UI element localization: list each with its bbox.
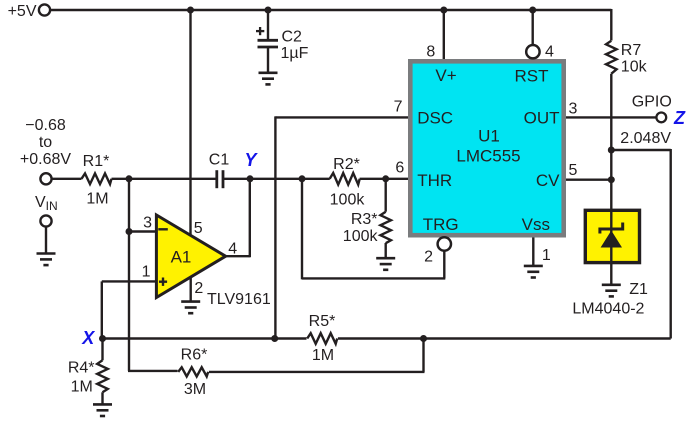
terminal TRG pin2 <box>438 237 451 250</box>
node DSC/X junction <box>271 335 278 342</box>
pin label 7 U1 <box>394 99 403 116</box>
terminal VIN ground stub <box>40 215 51 226</box>
pin label 1 U1 <box>542 247 551 264</box>
node junction rail to U1 pin8 <box>440 7 447 14</box>
svg-text:R7: R7 <box>621 42 642 59</box>
svg-text:RST: RST <box>515 67 549 86</box>
node R1/C1 junction <box>126 175 133 182</box>
svg-text:LM4040-2: LM4040-2 <box>572 300 644 317</box>
resistor R3 <box>343 211 391 245</box>
svg-text:Vss: Vss <box>522 215 550 234</box>
ground VIN <box>37 254 56 266</box>
capacitor C2 <box>256 27 309 62</box>
resistor R4 <box>68 360 108 396</box>
node CV junction <box>608 176 615 183</box>
pin label 6 U1 <box>395 159 404 176</box>
svg-text:GPIO: GPIO <box>632 94 672 111</box>
svg-text:100k: 100k <box>343 228 379 245</box>
zener diode Z1 <box>585 209 639 264</box>
svg-text:TLV9161: TLV9161 <box>207 291 271 308</box>
svg-text:TRG: TRG <box>423 215 459 234</box>
wire X line right <box>338 337 671 340</box>
terminal +5V <box>8 3 51 20</box>
pin label 4 U1 <box>545 43 554 60</box>
wire X line left <box>103 337 307 340</box>
resistor R6 <box>178 346 208 398</box>
node R2/R3 junction <box>382 175 389 182</box>
wire U1 pin8 <box>443 10 445 59</box>
node 2.048V tap <box>608 147 615 154</box>
svg-text:R1*: R1* <box>83 153 110 170</box>
wire R3 top <box>385 179 387 212</box>
wire U1 pin3 OUT <box>566 116 656 118</box>
terminal VIN <box>35 173 58 213</box>
node X <box>81 328 106 348</box>
svg-text:A1: A1 <box>171 248 192 267</box>
svg-text:2.048V: 2.048V <box>620 130 671 147</box>
svg-text:1µF: 1µF <box>281 45 309 62</box>
svg-text:4: 4 <box>228 240 237 257</box>
node junction rail to RST pin4 <box>529 7 536 14</box>
svg-text:to: to <box>39 134 52 151</box>
label GPIO <box>632 94 672 111</box>
svg-text:1M: 1M <box>71 378 93 395</box>
resistor R1 <box>82 153 112 208</box>
terminal GPIO <box>656 113 666 123</box>
label 2.048V <box>620 130 671 147</box>
svg-text:3M: 3M <box>184 381 206 398</box>
label input range <box>20 117 71 168</box>
svg-text:R4*: R4* <box>68 360 95 377</box>
ground R4 <box>93 404 112 416</box>
pin label 5 U1 <box>569 162 578 179</box>
wire C1 to THR left <box>223 178 330 180</box>
ground Z1 <box>602 285 621 297</box>
node R5/R6/ref junction <box>420 335 427 342</box>
ground R3 <box>376 258 395 270</box>
svg-text:OUT: OUT <box>524 109 560 128</box>
pin label 8 U1 <box>426 43 435 60</box>
svg-text:5: 5 <box>194 220 203 237</box>
node THR/TRG junction <box>299 175 306 182</box>
svg-text:1: 1 <box>542 247 551 264</box>
svg-text:R6*: R6* <box>181 346 208 363</box>
svg-text:Y: Y <box>244 150 258 170</box>
wire A1 pin2 stem <box>189 277 191 302</box>
pin label 5 A1 <box>194 220 203 237</box>
wire U1 pin4 <box>532 10 534 44</box>
wire R6 corner up <box>209 339 425 372</box>
wire rail corner to R7 <box>610 9 612 41</box>
wire VIN to R1 <box>52 178 82 180</box>
svg-text:2: 2 <box>194 280 203 297</box>
svg-text:R3*: R3* <box>351 211 378 228</box>
svg-text:−0.68: −0.68 <box>25 117 66 134</box>
svg-text:C1: C1 <box>209 151 230 168</box>
svg-text:4: 4 <box>545 43 554 60</box>
wire Z1 to ground <box>610 264 612 285</box>
svg-text:8: 8 <box>426 43 435 60</box>
svg-text:X: X <box>81 328 95 348</box>
op-amp A1 <box>156 215 225 298</box>
wire R4 to ground <box>101 392 103 404</box>
wire U1 pin1 Vss <box>532 238 534 266</box>
svg-text:1M: 1M <box>312 347 334 364</box>
wire 2.048V to right edge <box>611 149 670 339</box>
node Y <box>244 150 258 182</box>
svg-text:+5V: +5V <box>8 3 37 20</box>
svg-text:LMC555: LMC555 <box>456 146 520 165</box>
ground Vss <box>524 266 543 278</box>
wire C2 bottom stem <box>267 47 269 73</box>
svg-text:V+: V+ <box>435 66 456 85</box>
node junction rail to A1 pin5 <box>187 7 194 14</box>
ground A1 <box>181 302 200 314</box>
wire R7 to Z1 <box>610 74 612 209</box>
IC U1 LMC555 body <box>408 59 566 238</box>
wire R2 to THR <box>360 178 408 180</box>
svg-text:THR: THR <box>417 171 452 190</box>
wire U1 pin5 CV <box>566 178 611 180</box>
svg-text:R2*: R2* <box>333 156 360 173</box>
pin label 3 A1 <box>143 215 152 232</box>
pin label 2 A1 <box>194 280 203 297</box>
wire R3 bottom <box>385 243 387 258</box>
svg-text:6: 6 <box>395 159 404 176</box>
wire X to R4 <box>101 339 103 361</box>
pin label 3 U1 <box>569 100 578 117</box>
node inverting tap <box>126 228 133 235</box>
svg-text:2: 2 <box>424 248 433 265</box>
svg-text:3: 3 <box>143 215 152 232</box>
svg-text:1M: 1M <box>86 191 108 208</box>
resistor R7 <box>606 41 648 76</box>
svg-text:1: 1 <box>142 264 151 281</box>
svg-text:100k: 100k <box>330 191 366 208</box>
svg-text:CV: CV <box>536 171 560 190</box>
svg-text:C2: C2 <box>282 29 303 46</box>
wire C2 top stem <box>267 10 269 39</box>
svg-text:R5*: R5* <box>309 313 336 330</box>
capacitor C1 <box>209 151 230 188</box>
label TLV9161 <box>207 291 271 308</box>
svg-text:10k: 10k <box>621 59 648 76</box>
pin label 2 U1 <box>424 248 433 265</box>
wire rail to A1 pin5 <box>189 10 191 235</box>
terminal RST pin4 <box>526 45 539 58</box>
wire U1 pin2 TRG <box>302 179 445 280</box>
svg-text:+0.68V: +0.68V <box>20 151 71 168</box>
svg-text:5: 5 <box>569 162 578 179</box>
wire inverting input <box>129 230 157 232</box>
ground C2 <box>259 73 278 85</box>
wire noninverting input <box>102 281 157 338</box>
svg-text:Z: Z <box>673 108 686 128</box>
label LM4040-2 <box>572 300 644 317</box>
svg-text:Z1: Z1 <box>629 281 648 298</box>
svg-text:U1: U1 <box>478 127 500 146</box>
resistor R2 <box>330 156 366 208</box>
pin label 1 A1 <box>142 264 151 281</box>
svg-text:7: 7 <box>394 99 403 116</box>
svg-text:3: 3 <box>569 100 578 117</box>
svg-text:DSC: DSC <box>417 108 453 127</box>
resistor R5 <box>307 313 337 364</box>
wire U1 pin7 DSC <box>275 116 408 338</box>
wire +5V rail <box>50 9 611 11</box>
label Z1 <box>629 281 648 298</box>
pin label 4 A1 <box>228 240 237 257</box>
wire R1 to node <box>112 178 217 180</box>
node Z <box>673 108 686 128</box>
wire A1 output <box>224 179 250 257</box>
wire R1 node down to R6 corner <box>128 179 178 371</box>
wire VIN gnd stem <box>45 227 47 254</box>
node junction rail to C2 <box>265 7 272 14</box>
